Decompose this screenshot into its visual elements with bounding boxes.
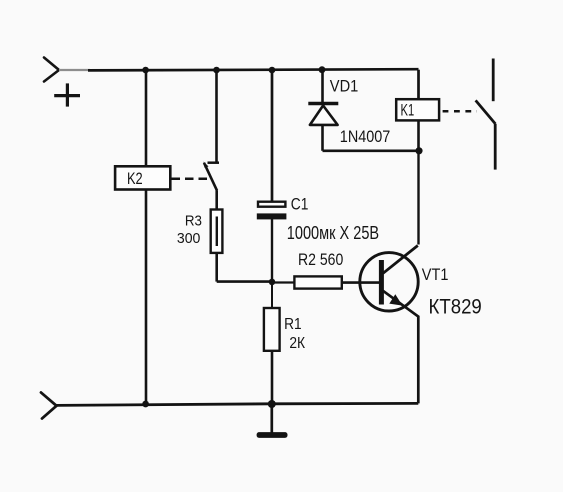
capacitor C1 minus plate (solid) — [257, 213, 287, 219]
wire: K2 coil top lead — [145, 70, 148, 167]
wire: node to R1 — [271, 282, 273, 308]
node: bottom rail / K2 junction — [142, 401, 149, 408]
svg-text:R1: R1 — [284, 316, 302, 333]
svg-text:КТ829: КТ829 — [429, 293, 482, 318]
wire: VD1 to K1 bottom horizontal — [323, 150, 420, 153]
node: K1 / VD1 / collector junction — [415, 147, 422, 154]
relay coil K1 — [396, 99, 439, 120]
wire: ground stub — [270, 404, 273, 433]
wire: R2 to base — [342, 281, 380, 284]
diode VD1 cathode bar — [308, 102, 338, 105]
wire: R3 to base node horizontal — [217, 280, 272, 283]
switch K2.1 fixed contact lead — [215, 70, 218, 163]
wire: K2 dashed actuation link — [172, 178, 210, 181]
wire: C1 top lead — [271, 70, 274, 201]
wire: collector diagonal into transistor — [383, 246, 418, 274]
terminal: bottom-left — [41, 393, 57, 419]
svg-text:R2 560: R2 560 — [298, 251, 343, 269]
wire: switch to R3 — [215, 190, 218, 209]
switch K2.1 blade arrow tip — [204, 162, 209, 168]
transistor VT1 body circle — [360, 253, 418, 311]
plus sign (+) polarity mark — [54, 83, 80, 106]
svg-text:300: 300 — [177, 230, 201, 247]
node: top rail / VD1 junction — [319, 66, 326, 73]
diode VD1 triangle — [310, 106, 338, 125]
svg-text:1000мк X 25В: 1000мк X 25В — [287, 223, 379, 243]
wire: C1 bottom lead — [271, 219, 273, 282]
capacitor C1 plus plate (hollow) — [258, 202, 285, 207]
wire: node to R2 — [272, 281, 294, 283]
switch K1.1 top contact — [492, 59, 495, 102]
svg-text:VT1: VT1 — [422, 266, 449, 284]
node: top rail / switch junction — [213, 67, 220, 74]
wire: R3 bottom lead — [215, 253, 218, 282]
node: R3/C1/R1/R2 base junction — [269, 279, 276, 286]
switch K2.1 blade — [204, 163, 217, 191]
svg-text:1N4007: 1N4007 — [340, 128, 391, 146]
resistor R1 body — [264, 308, 280, 351]
node: top rail / C1 junction — [269, 67, 276, 74]
wire: K2 coil bottom lead — [145, 189, 148, 404]
wire: top rail lead-in (lighter) — [59, 69, 90, 71]
node: bottom rail / R1-ground junction — [268, 400, 276, 408]
transistor VT1 emitter arrowhead — [389, 294, 402, 305]
wire: collector vertical — [417, 151, 419, 245]
svg-text:C1: C1 — [291, 195, 309, 214]
svg-text:K1: K1 — [401, 101, 415, 120]
transistor VT1 emitter line — [383, 291, 418, 404]
wire: bottom rail — [57, 403, 419, 405]
node: top rail / K2 coil junction — [142, 67, 149, 74]
wire: VD1 top lead — [321, 70, 324, 102]
terminal: top-left input — [44, 58, 59, 82]
svg-text:2К: 2К — [289, 335, 305, 352]
resistor R3 inner stripe — [216, 217, 218, 247]
switch K1.1 bottom contact — [494, 124, 497, 170]
wire: K1 bottom lead — [417, 121, 420, 151]
wire: K1 dashed actuation link — [443, 110, 477, 113]
resistor R2 body — [294, 276, 341, 288]
resistor R3 body — [211, 210, 223, 253]
wire: R1 bottom lead — [271, 351, 274, 404]
svg-text:R3: R3 — [185, 214, 202, 230]
svg-text:VD1: VD1 — [330, 78, 359, 96]
transistor VT1 base bar — [379, 260, 384, 305]
ground — [257, 432, 288, 438]
svg-text:K2: K2 — [127, 169, 143, 188]
switch K1.1 blade — [476, 100, 496, 124]
switch K2.1 contact tick — [208, 161, 220, 164]
wire: VD1 anode lead — [321, 125, 324, 151]
wire: top rail corner down to K1 — [417, 70, 420, 100]
wire: top rail — [88, 69, 419, 70]
relay coil K2 — [115, 166, 170, 189]
